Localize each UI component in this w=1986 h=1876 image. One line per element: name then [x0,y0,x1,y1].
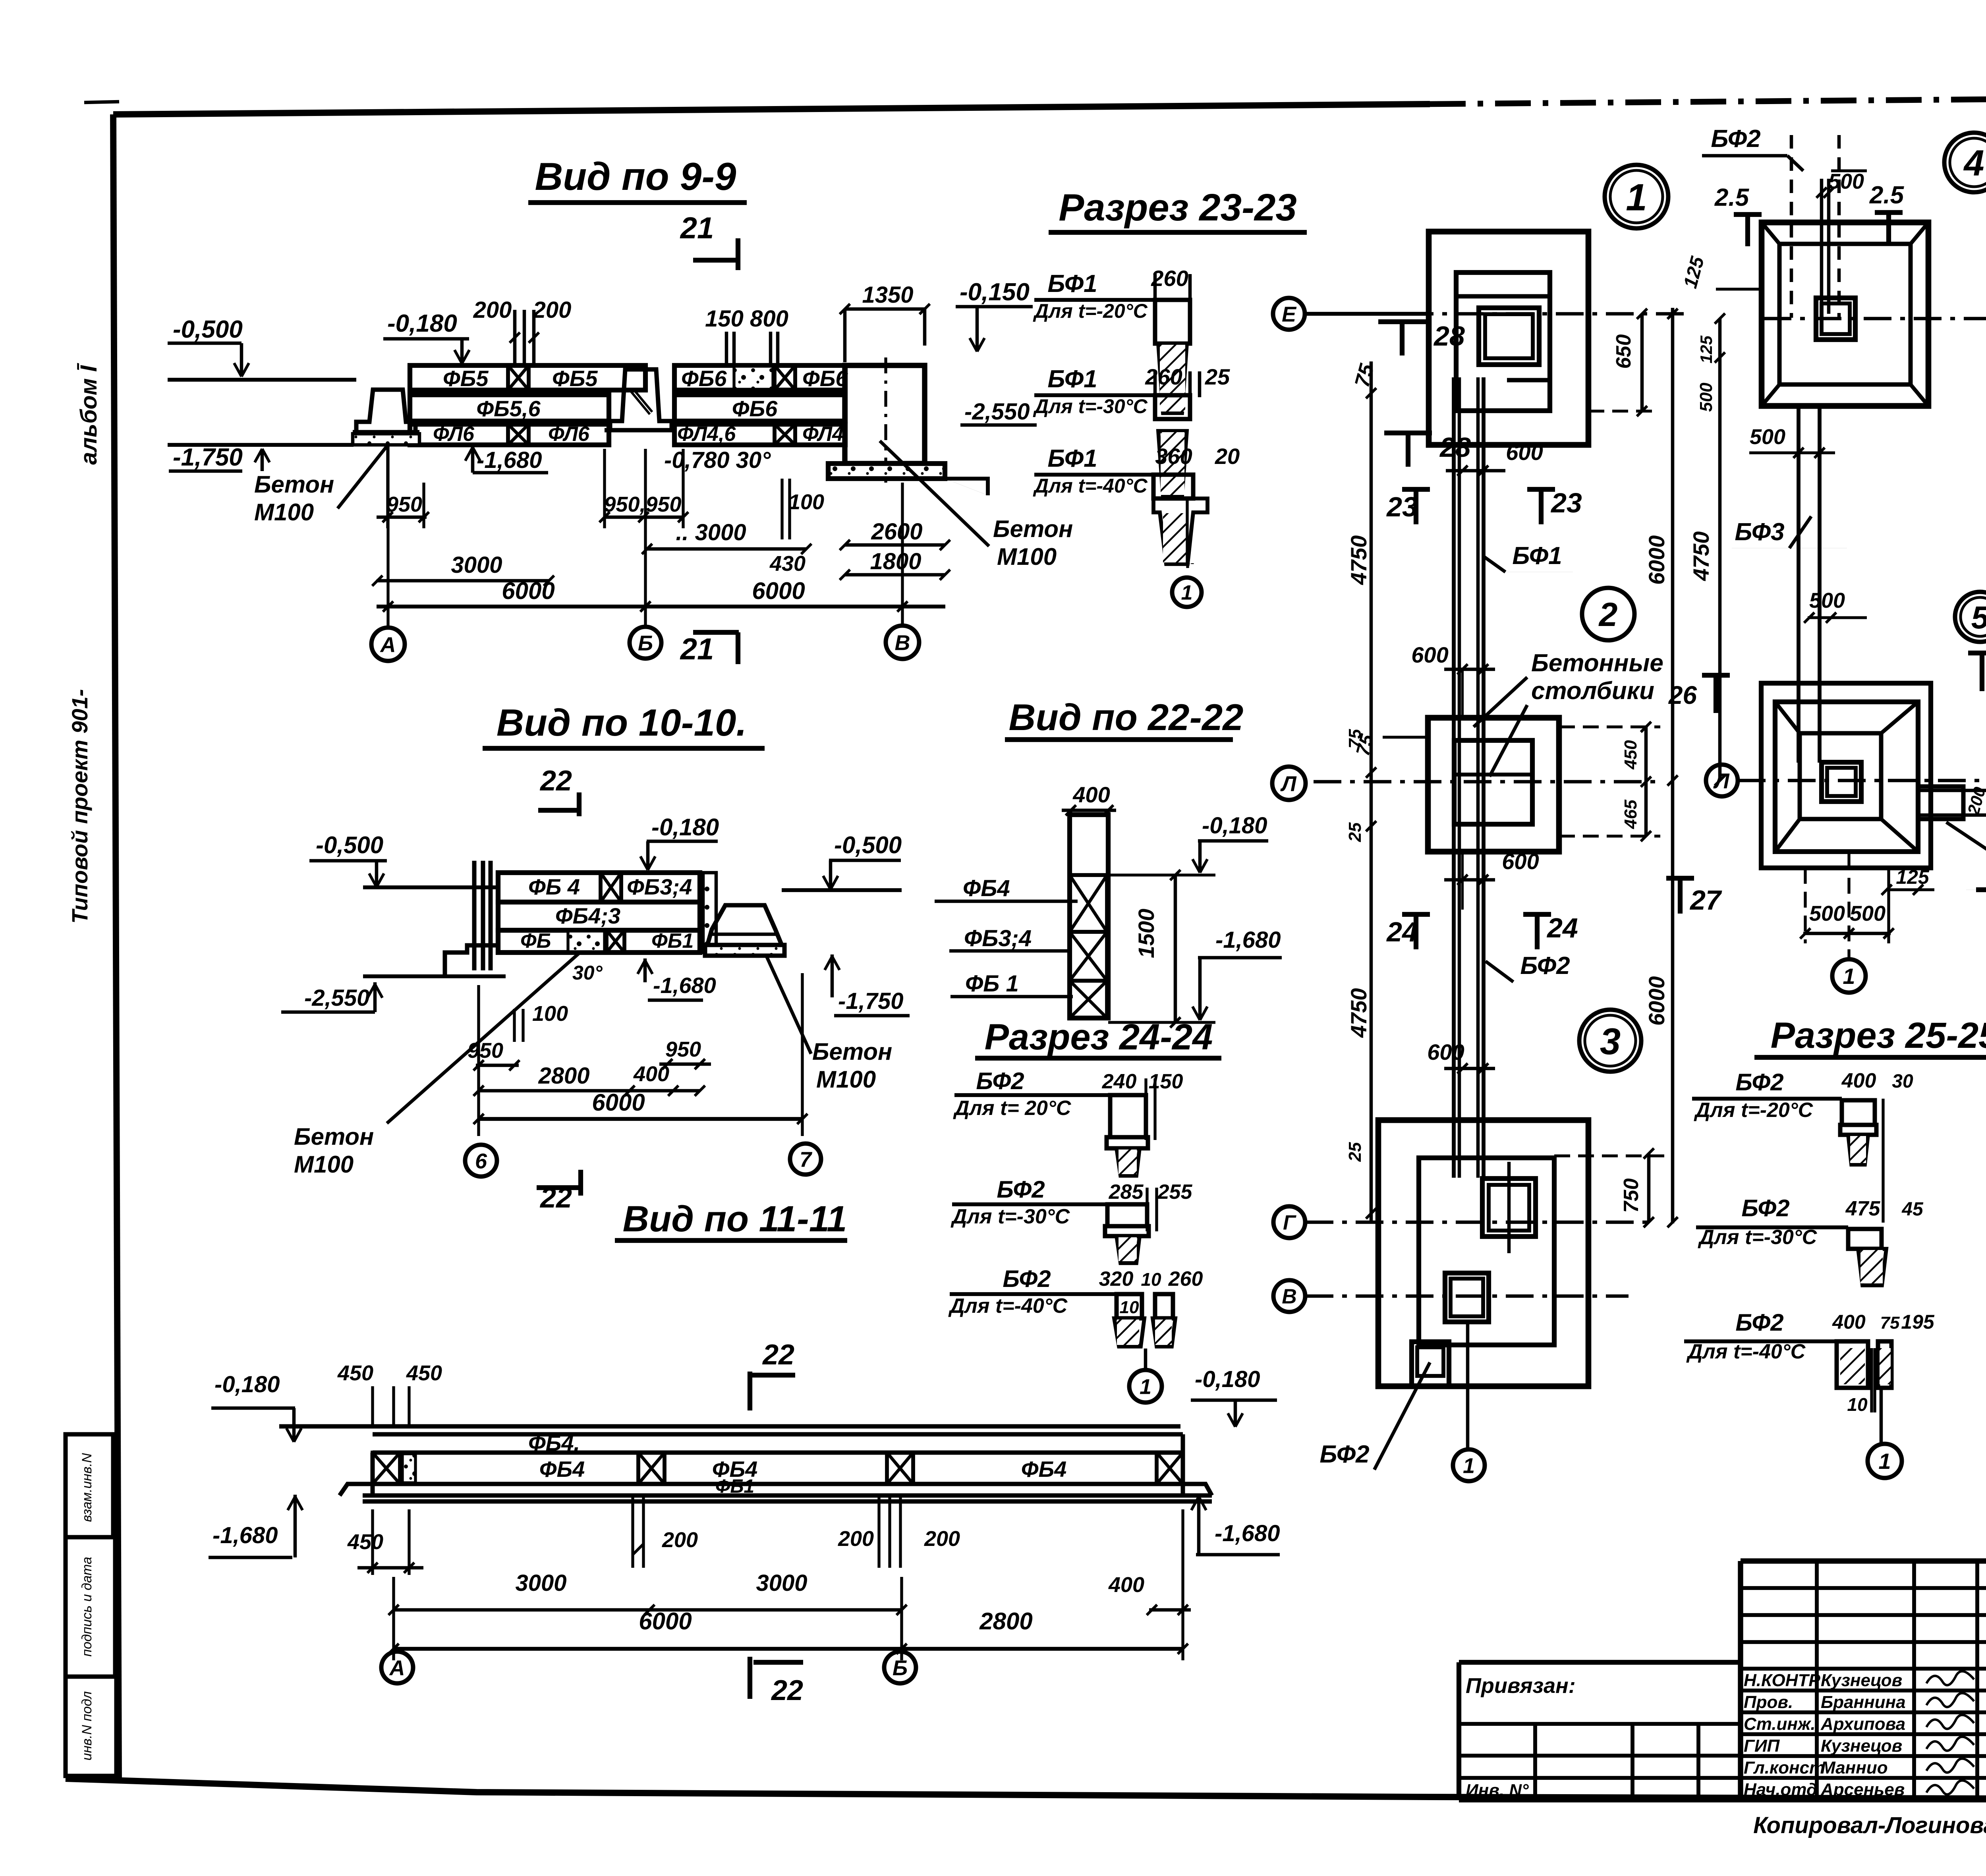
svg-text:600: 600 [1506,440,1543,465]
left stamp box ПОДПИСЬ И ДАТА [66,1537,115,1677]
svg-text:2.5: 2.5 [1714,184,1750,211]
svg-text:600: 600 [1427,1039,1464,1065]
svg-text:ФЛ4,6: ФЛ4,6 [677,423,736,446]
svg-text:1: 1 [1626,176,1647,219]
svg-text:ФБ5: ФБ5 [552,366,598,391]
dims 450 465 right of middle foundation [1559,722,1660,841]
svg-text:500: 500 [1750,425,1785,449]
svg-text:260: 260 [1145,364,1182,389]
svg-text:ФБ4;3: ФБ4;3 [555,903,620,928]
svg-text:-2,550: -2,550 [304,985,369,1011]
note Бетон М100 left (10-10) [294,952,580,1178]
svg-text:Разрез 23-23: Разрез 23-23 [1059,186,1297,229]
svg-text:10: 10 [1847,1394,1868,1415]
svg-text:-1,680: -1,680 [1215,1521,1280,1546]
ground line left (9-9) [168,378,356,382]
svg-text:ГИП: ГИП [1744,1736,1780,1756]
svg-text:Копировал-Логинова: Копировал-Логинова [1753,1812,1986,1838]
svg-text:21: 21 [680,211,714,245]
svg-text:75: 75 [1880,1313,1900,1333]
svg-text:Вид по 22-22: Вид по 22-22 [1009,696,1244,738]
dim line 4750/6000 left [1345,361,1376,1223]
svg-text:инв.N подл: инв.N подл [79,1691,95,1760]
label БФ1 with leader [1483,542,1573,572]
title Вид по 11-11 [615,1199,847,1240]
svg-text:А: А [380,633,396,657]
axis Б dash-dot line [1764,317,1986,321]
level -0,180 right (11-11) [1191,1366,1277,1427]
section БФ2 t=20 (24-24) [953,1068,1183,1176]
dim 950 right (10-10) [659,1037,711,1069]
svg-text:320: 320 [1099,1267,1134,1291]
dim row 3000 left (9-9) [372,552,554,586]
svg-text:650: 650 [1612,334,1635,369]
svg-text:ФБ3;4: ФБ3;4 [627,874,692,899]
svg-text:Вид по 11-11: Вид по 11-11 [623,1199,847,1239]
svg-text:200: 200 [924,1527,960,1551]
foundation plan top (axis Е) [1429,232,1588,445]
svg-text:М100: М100 [997,543,1057,570]
svg-text:ФБ1: ФБ1 [651,929,694,952]
level -2,550 (9-9) [945,399,1037,495]
svg-text:450: 450 [406,1361,442,1385]
svg-text:6000: 6000 [1644,535,1669,585]
svg-text:400: 400 [1072,782,1110,807]
svg-text:ФЛ6: ФЛ6 [433,423,475,446]
dim 2800 400 (10-10) [473,1062,705,1096]
svg-text:БФ2: БФ2 [1319,1441,1369,1468]
svg-text:255: 255 [1157,1180,1193,1204]
dim line 125 500 4750 (right) [1688,313,1725,786]
svg-text:30: 30 [1892,1071,1913,1092]
title Разрез 23-23 [1049,186,1307,232]
svg-text:400: 400 [1841,1069,1876,1092]
svg-text:ФБ4: ФБ4 [963,875,1010,901]
svg-text:Бетонные: Бетонные [1531,649,1663,677]
svg-text:22: 22 [771,1675,803,1706]
svg-text:Л: Л [1713,769,1730,793]
section mark 22 bottom (10-10) [537,1170,581,1214]
axis line to circle 1 bottom [1466,1323,1470,1449]
dim row 430 1800 (9-9) [769,549,950,580]
svg-text:БФ1: БФ1 [1512,542,1562,570]
svg-text:ФБ 4: ФБ 4 [528,874,580,899]
привязан table [1459,1662,1986,1800]
svg-text:450: 450 [337,1361,373,1385]
svg-text:ФБ3;4: ФБ3;4 [964,925,1032,951]
svg-text:-1,680: -1,680 [1215,927,1281,953]
beam rows (11-11) [363,1430,1212,1501]
wall posts left (10-10) [445,861,498,976]
dim 600 above bottom foundation [1427,1039,1495,1074]
svg-text:БФ1: БФ1 [1047,365,1097,393]
dim 950 950 (9-9) [599,449,688,528]
personnel row НАЧ.ОТД [1744,1780,1974,1799]
dim 750 (bottom plan) [1554,1148,1664,1227]
svg-text:22: 22 [539,765,572,797]
personnel row ГИП [1744,1736,1974,1756]
note Бетонные столбики [1474,649,1663,777]
svg-text:23: 23 [1550,487,1582,518]
svg-text:Л: Л [1280,772,1297,796]
svg-text:500: 500 [1809,589,1845,612]
svg-text:Для t=-40°C: Для t=-40°C [1033,475,1148,497]
note Бетон М100 right (9-9) [880,441,1073,570]
svg-text:Е: Е [1282,302,1297,326]
dim 200 200 (11-11) [838,1495,960,1568]
svg-text:21: 21 [680,632,714,666]
dim 100 (9-9) [782,479,824,539]
svg-text:450: 450 [347,1530,383,1554]
axis Л dash-dot line [1314,780,1658,784]
svg-text:5: 5 [1971,600,1986,635]
dim 650 (plan top) [1588,309,1656,416]
label ФБ3;4 (22-22) [949,925,1072,951]
svg-text:27: 27 [1689,885,1722,916]
svg-text:БФ2: БФ2 [1735,1069,1783,1095]
svg-text:10: 10 [1141,1269,1161,1290]
title Вид по 22-22 [1005,696,1243,740]
section mark 28 lower [1384,431,1432,435]
section mark 22 top (11-11) [750,1339,795,1410]
pedestal right end (11-11) [1180,1484,1212,1495]
svg-text:25: 25 [1345,1142,1365,1162]
svg-text:4750: 4750 [1346,535,1371,585]
label БФ2 top with leader [1702,125,1803,171]
svg-text:400: 400 [1108,1573,1144,1597]
svg-text:БФ2: БФ2 [1741,1195,1789,1221]
detail circle 2 [1582,588,1634,640]
svg-text:Архипова: Архипова [1820,1714,1905,1734]
svg-text:500: 500 [1809,902,1845,925]
svg-text:25: 25 [1205,364,1230,389]
svg-text:200: 200 [838,1527,874,1551]
dim 450 450 (11-11) [337,1361,442,1428]
svg-text:20: 20 [1215,444,1240,469]
leader to circle 1 (23-23) [1191,563,1194,564]
section mark 23 left [1386,489,1430,524]
top slab lines (11-11) [279,1426,1183,1434]
svg-text:28: 28 [1433,321,1465,352]
svg-text:-0,500: -0,500 [316,832,383,858]
note Бетон М100 right (10-10) [767,956,892,1093]
section mark 22 top (10-10) [538,765,579,816]
svg-text:500: 500 [1828,170,1864,193]
svg-text:ФЛ6: ФЛ6 [548,423,590,446]
svg-text:125: 125 [1697,335,1716,363]
svg-text:Ст.инж.: Ст.инж. [1744,1714,1816,1734]
svg-text:Вид по 9-9: Вид по 9-9 [535,155,736,198]
beam БФ1 vertical lines [1454,377,1484,1178]
svg-text:А: А [389,1656,405,1680]
svg-text:БФ3: БФ3 [1735,518,1784,546]
column block at axis В (9-9) [828,357,945,483]
dim 950 left (10-10) [468,985,520,1076]
dim 200 mid (11-11) [633,1495,698,1568]
section mark 23 right [1527,487,1582,524]
svg-text:-0,150: -0,150 [960,278,1030,306]
svg-text:ФБ5,6: ФБ5,6 [476,396,541,421]
svg-text:750: 750 [1620,1179,1643,1213]
dim line 6000 right [1644,308,1678,1227]
svg-text:28: 28 [1439,432,1471,463]
svg-text:М100: М100 [294,1151,354,1178]
svg-text:БФ2: БФ2 [997,1176,1045,1203]
svg-text:Бетон: Бетон [294,1123,374,1150]
svg-text:-0,180: -0,180 [651,814,719,840]
svg-text:600: 600 [1502,849,1539,874]
svg-text:25: 25 [1345,822,1365,842]
dim row 6000 6000 (9-9) [377,446,945,628]
beam row ФБ5,6 (9-9) [410,395,845,421]
section БФ2 t=-20 (25-25) [1692,1069,1913,1223]
level -0,500 left (10-10) [309,832,387,887]
svg-text:-2,550: -2,550 [964,399,1030,425]
level -1,680 (10-10) [638,958,716,1000]
svg-text:4750: 4750 [1688,531,1714,582]
circle 1 (23-23) [1172,578,1202,607]
svg-text:195: 195 [1901,1311,1935,1333]
svg-text:-0,180: -0,180 [387,310,457,337]
svg-text:7: 7 [800,1148,813,1171]
svg-text:3: 3 [1600,1020,1621,1062]
svg-text:-1,680: -1,680 [653,973,716,998]
axis circle В [1273,1280,1305,1312]
section mark 21 top [680,211,739,270]
section mark 26 small left [1668,675,1730,713]
title Разрез 24-24 [975,1017,1221,1058]
svg-text:Б: Б [893,1656,908,1680]
axis circle В (9-9) [886,626,919,659]
svg-text:Для t=-40°C: Для t=-40°C [1686,1340,1806,1363]
svg-text:950: 950 [665,1037,701,1061]
axis Л dash-dot right [1738,779,1986,782]
foundation pedestal at axis Б (9-9) [605,369,676,430]
svg-text:-0,500: -0,500 [173,316,243,343]
svg-text:950: 950 [468,1039,503,1063]
svg-text:45: 45 [1901,1199,1924,1220]
dim 1350 (9-9) [840,282,930,362]
svg-text:ФБ6: ФБ6 [802,366,848,391]
svg-text:взам.инв.N: взам.инв.N [79,1453,95,1522]
svg-text:ФБ 1: ФБ 1 [965,971,1019,997]
svg-text:столбики: столбики [1531,677,1654,705]
dim row 3000 2600 (9-9) [642,519,950,554]
svg-text:БФ1: БФ1 [1047,445,1097,472]
dim 600 (plan top) [1446,440,1543,476]
label ФБ4 (22-22) [935,875,1078,901]
svg-text:10: 10 [1120,1298,1139,1317]
dim 100 (10-10) [514,1002,568,1042]
svg-text:3000: 3000 [756,1570,807,1596]
title block personnel grid [1741,1561,1986,1800]
svg-text:4750: 4750 [1346,988,1371,1038]
level -0,180 (10-10) [640,814,719,870]
svg-text:Для t=-40°C: Для t=-40°C [948,1294,1068,1318]
section БФ1 t=-20 (23-23) [1033,266,1190,413]
dim 400 (22-22) [1062,782,1116,815]
svg-text:М100: М100 [254,499,314,526]
svg-text:100: 100 [788,490,824,514]
svg-text:2800: 2800 [538,1063,589,1089]
section mark 24 right [1523,912,1578,949]
svg-text:1: 1 [1181,582,1193,605]
svg-text:3000: 3000 [515,1570,566,1596]
svg-text:Бетон: Бетон [993,516,1073,542]
svg-text:Арсеньев: Арсеньев [1820,1780,1905,1799]
svg-text:1: 1 [1463,1454,1475,1478]
title Вид по 9-9 [528,155,747,203]
level -0,180 left (11-11) [211,1372,301,1442]
dim 150 800 (9-9) [705,306,788,365]
svg-text:1: 1 [1140,1375,1151,1399]
svg-text:ФБ4: ФБ4 [539,1457,585,1482]
personnel row ГЛ.КОНСТ [1744,1758,1974,1777]
beam row ФБ5/ФБ6 (9-9) [410,365,848,391]
cross box marks row1 (9-9) [508,365,795,390]
svg-text:М100: М100 [816,1066,876,1093]
left stamp box ВЗАМ.ИНВ.№ [66,1434,113,1537]
dim 600 above middle foundation [1411,642,1495,718]
column stack (22-22) [1070,815,1108,1018]
dim 75 left of middle foundation [1352,732,1428,758]
svg-text:1: 1 [1878,1449,1891,1474]
level -1,680 left (11-11) [209,1495,303,1557]
svg-text:475: 475 [1845,1197,1881,1220]
beam БФ2 dashed (hidden) top [1791,135,1839,318]
axis circle Е with line [1273,298,1426,330]
personnel row Н.КОНТР [1744,1671,1974,1690]
dim 500 mid right [1749,425,1835,458]
section БФ2 t=-30 (24-24) [950,1176,1192,1263]
svg-text:Н.КОНТР: Н.КОНТР [1744,1671,1820,1690]
svg-text:200: 200 [662,1528,698,1552]
svg-text:Для t=-20°C: Для t=-20°C [1033,300,1148,322]
foundation pedestal at axis А (9-9) [353,390,419,445]
svg-text:Разрез 24-24: Разрез 24-24 [985,1017,1213,1057]
detail circle 3 [1579,1010,1641,1072]
svg-text:26: 26 [1668,681,1697,709]
svg-text:100: 100 [532,1002,568,1026]
svg-text:24: 24 [1546,912,1578,943]
axis circle 6 (10-10) [465,1145,497,1177]
dim 125 below foundation [1882,866,1934,895]
svg-text:В: В [1282,1285,1297,1308]
svg-text:Кузнецов: Кузнецов [1821,1671,1902,1690]
dim 500 top [1816,170,1867,198]
svg-text:Разрез 25-25: Разрез 25-25 [1771,1015,1986,1056]
circle 1 bottom of plan [1453,1449,1485,1481]
dim 3000 3000 400 (11-11) [388,1570,1191,1615]
left stamp box ИНВ.№ПОДЛ [66,1677,116,1776]
level -0,180 (22-22) [1192,813,1268,873]
svg-text:465: 465 [1621,800,1640,829]
level -1,680 right (11-11) [1191,1495,1280,1555]
svg-text:23: 23 [1386,491,1418,522]
axis circle Л right of 22-22 [0,0,0,0]
svg-text:-0,180: -0,180 [1202,813,1267,839]
svg-text:Для t= 20°C: Для t= 20°C [953,1097,1072,1120]
title Вид по 10-10 [483,701,765,748]
svg-text:Для t=-30°C: Для t=-30°C [950,1205,1070,1228]
svg-text:Браннина: Браннина [1821,1692,1906,1712]
foundation plan top-right (axis Б) [1762,222,1928,406]
svg-text:-1,680: -1,680 [213,1522,278,1548]
svg-text:Гл.конст: Гл.конст [1744,1758,1825,1777]
svg-text:360: 360 [1155,444,1192,469]
svg-text:2.5: 2.5 [1869,182,1905,209]
svg-text:24: 24 [1386,916,1418,947]
axis Е dash-dot line [1306,312,1684,316]
svg-text:6000: 6000 [502,578,554,604]
svg-text:ФБ6: ФБ6 [681,366,727,391]
svg-text:подпись и дата: подпись и дата [79,1557,95,1656]
section mark 27 right [1666,878,1722,916]
section mark 28 upper [1378,319,1426,324]
beam БФ2 between right foundations [1799,406,1820,763]
svg-text:ФЛ4: ФЛ4 [802,423,844,446]
svg-text:ФБ6: ФБ6 [732,396,778,421]
svg-text:Пров.: Пров. [1744,1692,1793,1712]
foundation plan middle (axis Л) [1428,718,1559,852]
svg-text:Нач.отд: Нач.отд [1744,1780,1817,1799]
svg-text:-1,680: -1,680 [477,447,542,473]
svg-text:430: 430 [769,552,806,576]
svg-text:-0,180: -0,180 [1195,1366,1260,1392]
svg-text:260: 260 [1168,1267,1203,1291]
label БФ3 mid with leader [1732,516,1847,548]
svg-text:600: 600 [1411,642,1448,667]
title Разрез 25-25 [1754,1015,1986,1057]
svg-text:500: 500 [1850,902,1886,925]
section mark 21 bottom [680,632,739,666]
svg-text:2: 2 [1598,596,1618,633]
label БФ2 bottom left with leader [1319,1362,1430,1470]
axis circle 7 (10-10) [790,1144,821,1175]
svg-text:БФ2: БФ2 [1520,952,1570,980]
section mark 22 bottom (11-11) [750,1657,803,1706]
svg-text:6000: 6000 [752,578,805,604]
svg-text:6000: 6000 [592,1089,645,1116]
note Бетон М100 left (9-9) [254,446,387,526]
level -1,680 (9-9) [465,447,548,473]
svg-text:ФБ: ФБ [520,929,551,952]
label БФ2 with leader [1486,952,1570,982]
ground line left (10-10) [363,885,498,889]
svg-text:БФ2: БФ2 [1711,125,1760,153]
svg-text:-0,180: -0,180 [214,1372,280,1397]
svg-text:-1,750: -1,750 [838,988,903,1014]
datum line -1,750 (9-9) [168,444,354,471]
datum -2,550 line (10-10) [281,976,506,1012]
svg-text:Для t=-30°C: Для t=-30°C [1033,395,1148,417]
beam row ФЛ6 (9-9) [410,423,845,446]
svg-text:Для t=-20°C: Для t=-20°C [1694,1099,1814,1122]
dim 600 below middle foundation [1444,849,1539,910]
title block outer [1741,1561,1986,1800]
dim 450 (11-11) [347,1509,423,1575]
section mark 25 left top [1714,184,1762,246]
section БФ2 t=-40 (25-25) [1684,1309,1935,1415]
section БФ1 t=-40 (23-23) [1033,444,1240,564]
svg-text:Инв. N°: Инв. N° [1466,1781,1529,1800]
svg-text:Типовой проект 901-: Типовой проект 901- [67,689,92,924]
ground line right (10-10) [782,888,902,892]
svg-text:ФБ4: ФБ4 [1021,1457,1067,1482]
svg-text:400: 400 [633,1062,669,1086]
top-left stray mark [84,102,119,102]
svg-text:1: 1 [1843,964,1855,989]
